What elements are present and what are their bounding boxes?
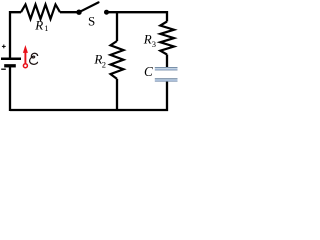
wire capacitor to bottom-right corner (117, 82, 167, 110)
minus sign (1, 68, 6, 70)
wire R3 to capacitor (166, 55, 168, 68)
svg-text:R: R (34, 18, 43, 33)
emf arrow head (23, 45, 28, 53)
capacitor C bottom plate (155, 78, 178, 81)
svg-text:3: 3 (152, 39, 156, 49)
wire switch to top-right corner (107, 12, 168, 21)
wire R1 to switch (60, 11, 79, 13)
wire R2 to bottom wire (116, 79, 118, 110)
resistor R2 (111, 41, 124, 79)
node dot right of switch (104, 10, 109, 15)
resistor R1 (21, 5, 60, 20)
svg-text:1: 1 (44, 23, 48, 33)
emf arrow shaft (24, 52, 26, 64)
battery short plate (negative) (4, 64, 16, 67)
plus sign (2, 45, 6, 49)
emf arrow tail circle (23, 64, 27, 68)
svg-text:R: R (143, 31, 152, 46)
wire bottom (10, 109, 117, 111)
battery long plate (positive) (1, 57, 21, 60)
resistor R3 (160, 22, 174, 55)
wire middle branch top (116, 12, 118, 41)
svg-text:C: C (144, 64, 153, 79)
node dot left of switch (76, 10, 81, 15)
switch S arm (79, 2, 99, 12)
svg-text:2: 2 (102, 59, 106, 69)
svg-text:S: S (88, 14, 95, 29)
emf script-E symbol (30, 53, 38, 64)
wire left bottom segment (9, 66, 11, 111)
wire top-left segment (10, 12, 21, 57)
